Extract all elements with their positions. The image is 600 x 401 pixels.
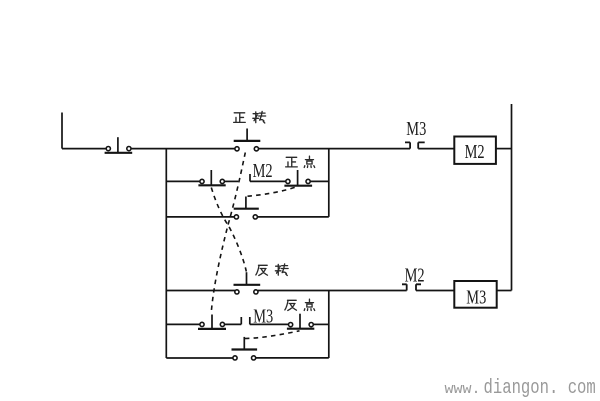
label 正点 (forward jog) bbox=[286, 156, 315, 167]
wire: top box right vertical bbox=[328, 149, 330, 217]
wire: bottom box right vertical bbox=[328, 291, 330, 359]
pushbutton SB1 (NC stop) bbox=[105, 137, 133, 153]
label 反转 (reverse) bbox=[256, 264, 288, 276]
wire: stop button to FWD start button (junction with inner left rail at x=166) bbox=[131, 148, 235, 150]
pushbutton SB3 反转 (NO reverse start) bbox=[234, 272, 261, 294]
watermark www.diangon.com bbox=[445, 378, 596, 400]
wire: left supply rail L1 bbox=[61, 113, 63, 149]
wire: rung2 left segment bbox=[166, 180, 200, 182]
wire: rung6 left segment bbox=[166, 357, 233, 359]
svg-text:M3: M3 bbox=[406, 117, 426, 140]
wire: interlock to coil M2 bbox=[418, 148, 454, 150]
wire: rung5 right segment bbox=[313, 323, 329, 325]
wire: FWD button to M3 interlock contact bbox=[259, 148, 411, 150]
wire: main rung from rail to stop button bbox=[62, 148, 106, 150]
svg-text:M3: M3 bbox=[253, 304, 273, 327]
pushbutton contact (2nd NO contact of 正转, rung3) bbox=[234, 197, 259, 219]
label 正转 (forward) bbox=[234, 111, 266, 123]
pushbutton contact 反点 (jog NC, rung5) bbox=[287, 314, 314, 329]
wire: rung2 middle segment with break bbox=[224, 180, 238, 182]
wire: coil M2 to right rail bbox=[496, 148, 512, 150]
wire: rung3 left segment bbox=[166, 216, 234, 218]
pushbutton SB2 正转 (NO forward start) bbox=[234, 129, 261, 151]
svg-text:M3: M3 bbox=[466, 285, 486, 308]
contact break on rung5 (M3 label break) bbox=[249, 317, 251, 324]
coil M3 (contactor coil box) bbox=[454, 281, 496, 308]
wire: rung2 segment to jog contact bbox=[250, 180, 286, 182]
wire: rung3 right segment bbox=[257, 216, 328, 218]
contact M3 (self-hold auxiliary, rung5) bbox=[198, 315, 226, 329]
contact M2 (NC interlock on reverse rung) bbox=[402, 284, 421, 290]
contact M3 (NC interlock on forward rung) bbox=[405, 142, 425, 148]
pushbutton contact (2nd NO contact of 反转, rung6) bbox=[232, 337, 258, 360]
label 反点 (reverse jog) bbox=[285, 299, 315, 310]
wire: rung2 right segment bbox=[310, 180, 329, 182]
mechanical linkage: M2 stem to 反转 button (dashed) bbox=[211, 188, 246, 272]
wire: rung5 segment to jog contact bbox=[250, 323, 289, 325]
wire: rung5 middle segment with break ticks bbox=[225, 317, 242, 324]
wire: right supply rail L2 bbox=[511, 104, 513, 291]
wire: coil M3 to right rail bbox=[497, 290, 512, 292]
svg-text:M2: M2 bbox=[405, 263, 425, 286]
wire: REV button to M2 interlock contact bbox=[258, 290, 407, 292]
contact break on rung2 (M2 label break) bbox=[249, 174, 251, 181]
wire: interlock to coil M3 bbox=[416, 290, 454, 292]
wire: rung6 right segment bbox=[256, 357, 329, 359]
svg-text:diangon. com: diangon. com bbox=[484, 378, 596, 400]
wire: inner left vertical rail bbox=[165, 149, 167, 358]
mechanical linkage: 正转 button to M3 self-hold stem (dashed) bbox=[211, 153, 245, 313]
mechanical linkage: rung6 contact to 反点 contact (dashed) bbox=[245, 331, 300, 339]
svg-text:M2: M2 bbox=[465, 140, 485, 163]
svg-text:M2: M2 bbox=[253, 159, 273, 182]
wire: rung4 (reverse rung) left segment bbox=[166, 290, 235, 292]
pushbutton contact 正点 (jog NC, rung2) bbox=[284, 170, 312, 186]
contact M2 (self-hold auxiliary, rung2) bbox=[198, 170, 225, 185]
mechanical linkage: rung3 contact to 正点 contact (dashed) bbox=[248, 187, 298, 197]
wire: rung5 left segment bbox=[166, 323, 200, 325]
svg-text:www.: www. bbox=[445, 381, 481, 398]
coil M2 (contactor coil box) bbox=[454, 137, 496, 164]
